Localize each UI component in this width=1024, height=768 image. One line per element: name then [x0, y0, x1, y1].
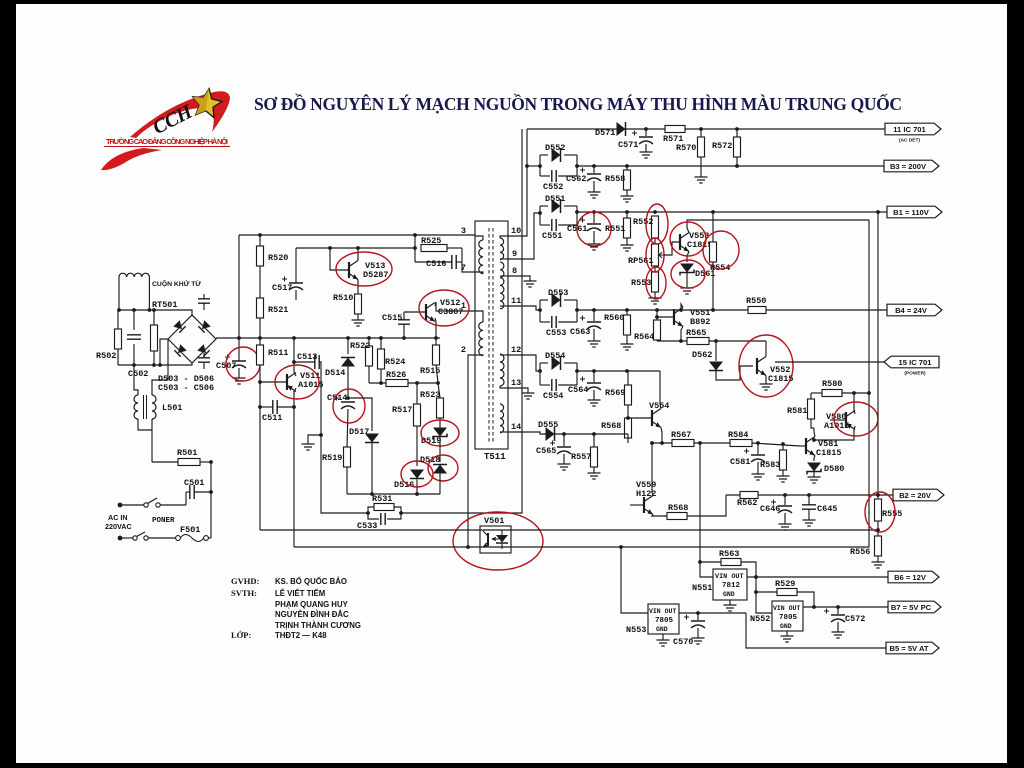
svg-text:C572: C572 — [845, 614, 865, 624]
wire C507 top — [238, 338, 240, 361]
highlight ellipse D519 — [421, 420, 459, 446]
wire C562 top — [593, 166, 595, 173]
wire V559 base — [630, 504, 644, 506]
bridge diode D504 — [198, 320, 210, 332]
wire R502 top — [117, 310, 119, 329]
junction — [807, 493, 811, 497]
wire V580 base — [830, 419, 846, 421]
svg-text:C502: C502 — [128, 369, 148, 379]
svg-text:C563: C563 — [570, 327, 590, 337]
wire x211 vertical — [210, 462, 212, 538]
svg-text:C517: C517 — [272, 283, 292, 293]
resistor R557 — [591, 447, 598, 467]
wire R556 top — [877, 530, 879, 536]
wire V512 emitter — [435, 318, 436, 338]
svg-text:R580: R580 — [822, 379, 842, 389]
ground under R558 — [621, 196, 634, 202]
junction — [812, 605, 816, 609]
wire R501 row — [152, 461, 178, 463]
resistor R555 — [875, 499, 882, 521]
junction — [292, 405, 296, 409]
highlight ellipse V501 — [453, 512, 543, 570]
wire V511 emitter top — [294, 388, 296, 392]
junction — [714, 339, 718, 343]
resistor R529 — [777, 589, 797, 596]
svg-text:C562: C562 — [566, 174, 586, 184]
wire V513 collector — [357, 248, 359, 261]
wire v513 top row y248 — [296, 247, 415, 249]
capacitor C507 — [232, 360, 246, 362]
svg-text:VIN OUT: VIN OUT — [649, 608, 676, 615]
wire R526 right — [408, 382, 438, 384]
highlight ellipse V513 — [336, 252, 392, 286]
ground under R556 — [872, 562, 885, 568]
output arrow B4 24V — [887, 304, 942, 316]
wire V511 emitter column — [293, 390, 295, 547]
svg-text:R564: R564 — [634, 332, 654, 342]
junction — [592, 308, 596, 312]
resistor R564 — [654, 320, 661, 340]
junction — [379, 381, 383, 385]
svg-text:NGUYỄN ĐÌNH ĐẮC: NGUYỄN ĐÌNH ĐẮC — [275, 610, 349, 619]
wire degauss right leg — [148, 277, 150, 310]
resistor R550 — [748, 307, 766, 314]
junction — [655, 315, 659, 319]
svg-text:13: 13 — [511, 378, 521, 388]
resistor R572 — [734, 137, 741, 157]
resistor R522 — [366, 346, 373, 366]
wire C517 bottom — [295, 290, 297, 300]
resistor R531 combo frame — [368, 507, 374, 513]
wire C564 bottom — [593, 390, 595, 400]
svg-text:D553: D553 — [548, 288, 568, 298]
svg-text:1: 1 — [461, 301, 466, 311]
junction — [466, 545, 470, 549]
junction — [209, 490, 213, 494]
resistor R567 — [672, 440, 694, 447]
wire pin11 to D553 — [508, 306, 540, 310]
T511 core dashed lines — [489, 228, 493, 444]
degauss coil — [119, 273, 149, 277]
wire R584 right — [752, 443, 800, 446]
svg-text:C564: C564 — [568, 385, 588, 395]
wire R526 row — [369, 382, 386, 384]
svg-text:C513: C513 — [297, 352, 317, 362]
wire R551 top — [626, 212, 628, 218]
resistor RT501 — [151, 325, 158, 351]
wire to pin7 — [462, 248, 475, 272]
wire R568 right — [687, 495, 726, 516]
resistor R583 — [780, 450, 787, 470]
svg-text:3: 3 — [461, 226, 466, 236]
svg-text:LÊ VIẾT TIẾM: LÊ VIẾT TIẾM — [275, 588, 325, 598]
RP561 wiper arrow — [659, 252, 664, 258]
capacitor C516 — [452, 255, 456, 269]
ground under C564 — [588, 400, 601, 406]
wire col260 b — [259, 266, 261, 298]
wire R517 bottom — [416, 426, 418, 466]
wire N553 vin — [621, 547, 648, 613]
capacitor C502 — [127, 335, 141, 339]
diode D554 — [552, 356, 561, 370]
optocoupler V501 box — [480, 526, 511, 553]
wire R525 branch — [414, 235, 416, 262]
junction — [711, 210, 715, 214]
output arrow B7 5V PC — [888, 601, 941, 613]
wire V554 collector — [660, 371, 661, 409]
svg-text:D555: D555 — [538, 420, 558, 430]
bridge diode D506 — [197, 344, 209, 356]
wire V513 base — [330, 248, 349, 270]
T511 pin 11 lead — [500, 305, 508, 307]
wire R523 top — [438, 383, 440, 398]
diode D514 — [341, 358, 355, 367]
wire switch to C501 — [185, 492, 187, 505]
svg-text:R524: R524 — [385, 357, 405, 367]
inductor L501 left winding — [134, 395, 138, 419]
wire C503 leads — [203, 294, 205, 299]
svg-text:C565: C565 — [536, 446, 556, 456]
junction — [413, 246, 417, 250]
svg-text:11 IC 701: 11 IC 701 — [893, 125, 926, 134]
transistor V513 D5287 — [348, 262, 350, 278]
bridge diode D503 — [173, 320, 185, 332]
wire L501 right top — [152, 339, 168, 395]
wire pin10 riser — [508, 129, 527, 236]
wire R570 top — [700, 129, 702, 137]
highlight ellipse R554 — [703, 231, 739, 269]
resistor R526 — [386, 380, 408, 387]
bridge diode D505 — [174, 344, 186, 356]
junction — [413, 233, 417, 237]
snubber D554 C554 frame — [540, 362, 548, 364]
wire switch right — [160, 504, 186, 506]
wire R564 top — [656, 310, 658, 320]
output arrow B3 200V — [884, 160, 939, 172]
wire D580 bottom — [813, 472, 815, 478]
svg-text:(AC DET): (AC DET) — [899, 138, 920, 144]
wire R565 row — [657, 340, 687, 342]
svg-text:GVHD:: GVHD: — [231, 576, 260, 586]
highlight ellipse C507 — [226, 347, 260, 381]
junction — [852, 391, 856, 395]
wire R554 bottom — [712, 262, 714, 310]
wire C563 top — [593, 310, 595, 321]
diode D571 — [617, 122, 626, 136]
wire V513 emitter — [357, 280, 359, 295]
wire C646 top — [784, 495, 786, 505]
wire C502 top — [133, 310, 135, 330]
wire C563 bottom — [593, 329, 595, 341]
wire V552 emitter — [765, 376, 767, 385]
resistor R501 — [178, 459, 200, 466]
svg-text:C645: C645 — [817, 504, 837, 514]
wire RT501 bottom — [153, 351, 155, 365]
ground under C645 — [803, 520, 816, 526]
potentiometer RP561 — [652, 244, 659, 266]
regulator N552 7805 box — [772, 601, 803, 631]
T511 pin 3 lead — [475, 236, 483, 240]
svg-text:10: 10 — [511, 226, 521, 236]
snubber D553 C553 frame — [540, 299, 548, 301]
svg-text:14: 14 — [511, 422, 521, 432]
capacitor C645 — [802, 505, 816, 509]
highlight ellipse RP561 — [646, 238, 664, 272]
capacitor C572 — [831, 614, 845, 616]
capacitor C514 — [341, 401, 355, 403]
T511 pin 13 lead — [500, 386, 508, 388]
wire C572 top — [837, 607, 839, 614]
junction — [152, 363, 156, 367]
transistor V553 C1815 — [679, 234, 681, 250]
junction — [366, 511, 370, 515]
junction — [679, 308, 683, 312]
ground N551 — [724, 605, 737, 611]
highlight ellipse V552 — [739, 335, 793, 397]
svg-text:LỚP:: LỚP: — [231, 630, 251, 640]
svg-text:TRỊNH THÀNH CƯƠNG: TRỊNH THÀNH CƯƠNG — [275, 621, 361, 630]
wire D514 col top — [347, 338, 349, 354]
wire fuse mid — [148, 537, 175, 539]
svg-text:C646: C646 — [760, 504, 780, 514]
border bar top — [0, 0, 1024, 4]
junction — [592, 432, 596, 436]
wire R531 right to x522 — [401, 129, 522, 513]
wire R560 top — [626, 310, 628, 315]
junction — [735, 164, 739, 168]
wire AC bottom row — [118, 363, 192, 365]
wire R519 bottom — [346, 467, 348, 494]
wire N552 gnd — [786, 631, 788, 636]
wire R524 bottom — [380, 369, 382, 383]
junction — [148, 308, 152, 312]
svg-text:7812: 7812 — [722, 582, 741, 590]
junction — [370, 492, 374, 496]
svg-text:SƠ ĐỒ NGUYÊN LÝ MẠCH NGUỒN T: SƠ ĐỒ NGUYÊN LÝ MẠCH NGUỒN TRONG MÁY THU… — [254, 94, 902, 114]
wire R569 top — [627, 371, 629, 385]
capacitor C565 — [557, 446, 571, 448]
svg-text:B5 = 5V AT: B5 = 5V AT — [889, 644, 928, 653]
junction — [356, 246, 360, 250]
transistor V551 B892 — [673, 309, 675, 325]
junction — [258, 233, 262, 237]
highlight ellipse D561 — [671, 260, 705, 288]
svg-text:R581: R581 — [787, 406, 807, 416]
wire B2 row — [726, 494, 893, 496]
junction — [209, 460, 213, 464]
wire D517 branch — [348, 398, 372, 431]
highlight ellipse V553 — [670, 222, 706, 256]
resistor R510 — [355, 294, 362, 314]
diode D552 — [552, 148, 561, 162]
output arrow B1 110V — [887, 206, 942, 218]
svg-text:B6 = 12V: B6 = 12V — [894, 573, 927, 582]
T511 primary winding upper — [479, 240, 483, 274]
wire C505 lead2 — [203, 363, 205, 370]
wire V551 collector — [681, 304, 683, 310]
svg-text:8: 8 — [512, 266, 517, 276]
svg-text:R568: R568 — [668, 503, 688, 513]
wire V512 collector — [435, 302, 475, 311]
transistor V511 A1015 — [286, 374, 288, 390]
junction — [328, 246, 332, 250]
wire C505 leads — [203, 353, 205, 358]
resistor R562 — [740, 492, 758, 499]
wire x700 vertical — [700, 443, 713, 577]
wire col260 c — [259, 318, 261, 345]
wire V559 emitter — [652, 515, 667, 517]
capacitor C505 — [198, 358, 210, 362]
junction — [367, 336, 371, 340]
ground small — [302, 444, 315, 450]
resistor R568 second — [667, 513, 687, 520]
svg-text:C1815: C1815 — [816, 448, 842, 458]
wire R568b join — [627, 434, 629, 438]
resistor R521 — [257, 298, 264, 318]
T511 pin 2 lead — [475, 354, 483, 357]
bridge rectifier D503-D506 diamond — [168, 315, 216, 363]
wire V551 emitter — [681, 327, 683, 342]
wire bus1 feedback — [260, 529, 878, 531]
wire V511 base — [260, 381, 287, 383]
T511 pin 1 lead — [475, 311, 483, 322]
optocoupler V501 internals — [487, 533, 489, 546]
junction — [158, 363, 162, 367]
wire C645 bottom — [808, 509, 810, 520]
svg-text:R552: R552 — [633, 217, 653, 227]
wire C565 bottom — [563, 454, 565, 464]
wire R558 bottom — [626, 190, 628, 196]
resistor R563 — [721, 559, 741, 566]
ground under C562 — [588, 192, 601, 198]
wire C571 bottom — [645, 144, 647, 152]
wire C513 right col — [319, 362, 368, 513]
wire N551 gnd — [729, 600, 731, 605]
junction — [117, 308, 121, 312]
svg-text:D552: D552 — [545, 143, 565, 153]
wire C511 left — [260, 406, 273, 408]
svg-text:C551: C551 — [542, 231, 562, 241]
svg-text:D571: D571 — [595, 128, 615, 138]
wire V554 emitter — [661, 428, 662, 444]
capacitor C501 — [190, 485, 194, 499]
svg-text:R520: R520 — [268, 253, 288, 263]
wire C565 top — [563, 434, 565, 446]
svg-text:R555: R555 — [882, 509, 902, 519]
svg-text:RT501: RT501 — [152, 300, 178, 310]
junction — [625, 308, 629, 312]
svg-text:R563: R563 — [719, 549, 739, 559]
T511 secondary winding 2 — [500, 262, 504, 309]
wire C561 bottom — [593, 231, 595, 244]
svg-text:R562: R562 — [737, 498, 757, 508]
junction — [735, 127, 739, 131]
svg-text:R529: R529 — [775, 579, 795, 589]
logo star — [190, 86, 224, 118]
ground under C561 — [588, 244, 601, 250]
capacitor C570 — [691, 620, 705, 622]
junction — [575, 308, 579, 312]
border bar left — [0, 0, 16, 768]
svg-text:B7 = 5V PC: B7 = 5V PC — [891, 603, 932, 612]
svg-text:C554: C554 — [543, 391, 563, 401]
logo caption underline — [104, 146, 230, 148]
wire V581 base — [800, 445, 806, 447]
wire N551 out down — [756, 577, 772, 613]
inductor L501 right winding — [152, 395, 156, 419]
wire C501 row right — [194, 491, 211, 493]
junction — [346, 396, 350, 400]
svg-text:B2 = 20V: B2 = 20V — [899, 491, 932, 500]
wire B5 row — [746, 613, 886, 648]
wire R555 bottom — [877, 521, 879, 530]
wire C515 top — [403, 312, 405, 320]
svg-text:C503 - C506: C503 - C506 — [158, 383, 214, 393]
junction — [836, 605, 840, 609]
wire R551 bottom — [626, 238, 628, 245]
wire C515 bottom — [403, 324, 405, 338]
resistor R570 — [698, 137, 705, 157]
wire B1 row — [577, 211, 887, 213]
ground N553 — [657, 640, 670, 646]
snubber D551 C551 frame — [540, 205, 548, 207]
switch POWER — [144, 503, 148, 507]
resistor R517 — [414, 404, 421, 426]
transistor V554 — [651, 410, 653, 426]
svg-text:C1815: C1815 — [687, 240, 713, 250]
resistor R558 — [624, 170, 631, 190]
junction — [754, 575, 758, 579]
ground under R560 — [621, 344, 634, 350]
svg-text:15 IC 701: 15 IC 701 — [899, 358, 933, 367]
capacitor C533 — [381, 513, 385, 525]
svg-text:R553: R553 — [631, 278, 651, 288]
junction — [592, 164, 596, 168]
ground under D561 — [681, 288, 694, 294]
capacitor C571 — [639, 136, 653, 138]
capacitor C564 — [587, 382, 601, 384]
T511 pin 10 lead — [500, 236, 508, 238]
wire V581 emitter — [814, 456, 815, 462]
wire bridge left stub — [160, 339, 168, 365]
T511 pin 12 lead — [500, 354, 508, 356]
wire R554 top — [712, 212, 714, 242]
svg-text:2: 2 — [461, 345, 466, 355]
svg-text:C581: C581 — [730, 457, 750, 467]
resistor R515 — [433, 345, 440, 365]
junction — [132, 363, 136, 367]
capacitor C517 — [289, 282, 303, 284]
wire RP561 to R553 — [654, 266, 656, 272]
highlight ellipse R555 — [865, 492, 895, 532]
svg-text:R501: R501 — [177, 448, 197, 458]
wire C564 top — [593, 371, 595, 382]
wire V512 base — [404, 311, 426, 313]
wire C572 bottom — [837, 622, 839, 632]
wire N553 out — [679, 612, 746, 614]
ground under C570 — [692, 638, 705, 644]
wire C501 row — [186, 491, 190, 493]
svg-text:SVTH:: SVTH: — [231, 588, 257, 598]
resistor R568b — [625, 418, 632, 438]
junction — [699, 127, 703, 131]
junction — [592, 369, 596, 373]
svg-text:GND: GND — [780, 623, 792, 630]
junction — [132, 308, 136, 312]
svg-text:R502: R502 — [96, 351, 116, 361]
wire bottom collector row y494 — [347, 493, 440, 495]
wire C570 bottom — [697, 628, 699, 638]
